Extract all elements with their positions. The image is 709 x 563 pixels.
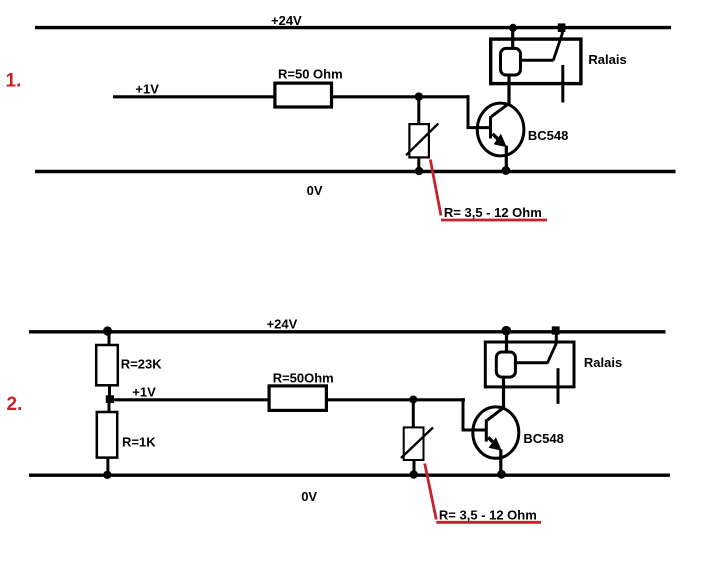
relay K1 box [491,39,581,84]
red underline circuit 1 [441,219,547,222]
svg-text:R=1K: R=1K [122,434,156,449]
wire R23K bottom lead circuit 2 [108,386,111,401]
svg-text:R=50Ohm: R=50Ohm [273,371,334,386]
node dot coil on +24V rail circuit 2 [502,326,512,336]
varistor diagonal circuit 1 [406,124,438,156]
svg-text:R=23K: R=23K [121,357,162,372]
resistor R=50 Ohm circuit 1 [275,83,332,107]
wire switch lead circuit 1 [561,28,564,34]
relay K1 coil [501,48,521,75]
node dot coil on +24V rail circuit 1 [509,24,517,32]
wire +1V to resistor circuit 2 [109,398,268,401]
svg-text:Ralais: Ralais [588,52,626,67]
node junction dot divider middle circuit 2 [106,395,114,403]
svg-text:Ralais: Ralais [584,355,622,370]
relay K1 switch armature diagonal [553,33,562,60]
wire transistor base circuit 2 [462,429,487,432]
wire resistor to junction circuit 1 [333,95,470,98]
wire relay coil to +24V rail circuit 1 [511,28,514,48]
svg-text:0V: 0V [307,183,323,198]
wire R23K top lead circuit 2 [108,331,111,345]
svg-text:BC548: BC548 [528,128,568,143]
transistor Q1 base bar [489,116,492,139]
node square dot switch on +24V rail circuit 1 [558,23,566,32]
node junction dot varistor top circuit 2 [409,396,417,404]
wire Q2 collector to relay coil circuit 2 [502,379,505,408]
wire relay coil to +24V rail circuit 2 [505,331,508,351]
wire +24V rail circuit 2 [29,330,666,333]
resistor R=1K circuit 2 [97,412,117,458]
wire varistor to 0V rail circuit 1 [417,159,420,172]
resistor R=50Ohm circuit 2 [269,386,326,411]
varistor diagonal circuit 2 [401,428,433,459]
wire Q2 emitter to 0V rail circuit 2 [499,450,502,476]
transistor Q2 BC548 circle [473,407,519,458]
transistor Q2 base bar [485,419,488,441]
transistor Q1 BC548 circle [477,103,524,156]
svg-text:R= 3,5 - 12 Ohm: R= 3,5 - 12 Ohm [439,508,537,523]
wire Q1 emitter to 0V rail circuit 1 [505,146,508,172]
node junction dot varistor bottom circuit 1 [415,167,423,175]
node junction dot emitter on 0V rail circuit 1 [502,166,511,175]
wire 0V rail circuit 2 [29,474,670,477]
transistor Q2 collector stroke [488,408,504,421]
node junction dot emitter on 0V rail circuit 2 [497,470,506,479]
svg-text:BC548: BC548 [523,431,563,446]
wire R1K top lead circuit 2 [108,400,111,412]
node junction dot divider bottom on 0V rail circuit 2 [103,471,111,479]
wire Q1 collector to relay coil circuit 1 [507,77,510,105]
varistor body circuit 2 [404,427,424,460]
relay K1 fixed contact [561,65,564,103]
red callout line circuit 1 [430,160,441,216]
wire resistor to junction circuit 2 [328,398,465,401]
wire +24V rail circuit 1 [35,26,671,29]
wire +1V input circuit 1 [113,95,274,98]
transistor Q1 emitter stroke with arrow [493,134,507,148]
svg-text:1.: 1. [6,70,22,91]
node dot divider top on +24V rail circuit 2 [103,326,112,335]
wire 0V rail circuit 1 [35,170,676,173]
transistor Q1 collector stroke [492,104,509,117]
red callout line circuit 2 [425,464,437,520]
node junction dot at varistor top circuit 1 [415,92,423,100]
svg-text:0V: 0V [301,489,317,504]
relay K2 actuation link wire [516,361,548,364]
transistor Q2 emitter stroke with arrow [488,437,502,451]
svg-text:+24V: +24V [267,316,298,331]
svg-text:+24V: +24V [271,13,302,28]
wire switch lead circuit 2 [555,331,558,343]
wire varistor to 0V rail circuit 2 [413,460,416,475]
wire junction down to varistor circuit 2 [412,400,415,428]
svg-text:R= 3,5 - 12 Ohm: R= 3,5 - 12 Ohm [444,205,542,220]
svg-text:+1V: +1V [132,385,156,400]
varistor body circuit 1 [409,124,429,157]
node junction dot varistor bottom circuit 2 [410,470,418,478]
svg-text:2.: 2. [7,394,23,415]
resistor R=23K circuit 2 [96,345,118,385]
wire vertical down to base level circuit 1 [467,95,470,127]
node square dot switch on +24V rail circuit 2 [552,326,560,334]
relay K1 actuation link wire [522,59,554,62]
svg-text:R=50 Ohm: R=50 Ohm [278,67,343,82]
wire junction down to varistor circuit 1 [417,97,420,124]
relay K2 box [485,342,574,387]
wire R1K bottom lead circuit 2 [106,458,109,476]
wire transistor base circuit 1 [467,126,491,129]
relay K2 fixed contact [557,368,560,404]
red underline circuit 2 [436,521,541,524]
relay K2 switch armature diagonal [547,342,557,363]
wire vertical down to base level circuit 2 [462,398,465,430]
relay K2 coil [496,352,515,377]
svg-text:+1V: +1V [135,81,159,96]
